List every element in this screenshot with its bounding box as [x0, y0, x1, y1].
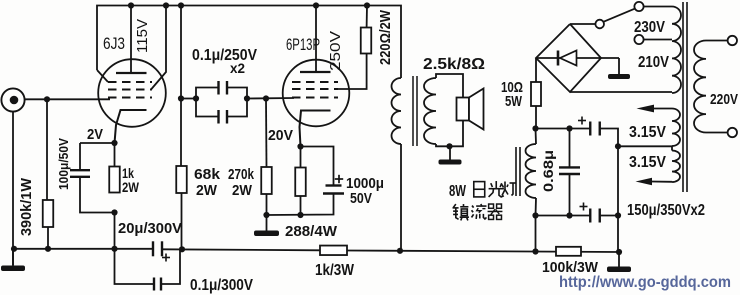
- switch contact 210V: [634, 35, 643, 44]
- svg-text:20μ/300V: 20μ/300V: [118, 220, 182, 237]
- svg-text:2V: 2V: [87, 126, 103, 143]
- wire C1000u bottom lead: [267, 194, 334, 216]
- svg-text:150μ/350Vx2: 150μ/350Vx2: [627, 202, 705, 219]
- svg-text:288/4W: 288/4W: [285, 223, 338, 240]
- node input/390k junction: [44, 96, 50, 102]
- resistor 68k/2W: [176, 166, 187, 193]
- node 288/ground junction: [263, 212, 269, 218]
- wire bridge AC bottom to HV winding: [570, 91, 672, 93]
- svg-text:3.15V: 3.15V: [629, 124, 667, 141]
- node cap pair left: [193, 95, 199, 101]
- svg-text:220V: 220V: [710, 91, 738, 108]
- resistor 390k/1W: [43, 200, 54, 227]
- tube 6P13P anode lead: [315, 6, 317, 73]
- node bus/cathode net: [111, 246, 117, 252]
- wire bridge AC top: [570, 23, 595, 25]
- wire filament 2 bottom with arrow: [651, 181, 672, 183]
- svg-text:250V: 250V: [327, 31, 344, 71]
- wire cathode node to C 100u: [80, 142, 115, 144]
- polarity + of upper 150u: [578, 120, 586, 122]
- wire mains bottom lead: [706, 132, 728, 134]
- bridge diode symbol: [536, 57, 601, 59]
- terminal mains bottom: [728, 128, 737, 137]
- tube 6J3 anode plate: [116, 72, 147, 74]
- capacitor 150u/350V lower: [589, 209, 591, 223]
- node filament return: [615, 143, 621, 149]
- svg-text:0.68μ: 0.68μ: [540, 150, 556, 192]
- wire filament 2 joins return: [671, 146, 673, 150]
- wire 390k top lead: [46, 99, 48, 200]
- terminal mains top: [728, 36, 737, 45]
- transformer T1 core: [412, 76, 414, 146]
- svg-text:68k: 68k: [194, 166, 221, 183]
- node 6P13P grid / 270k: [263, 95, 269, 101]
- tube 6P13P grid g2: [292, 88, 338, 90]
- wire choke top lead: [535, 129, 538, 145]
- wire cap pair to 6P13P grid: [247, 97, 294, 100]
- node cathode bottom junction: [111, 209, 117, 215]
- switch contact pole: [595, 20, 604, 29]
- wire 6J3 g2 strap to bus: [151, 6, 166, 90]
- svg-text:http://www.go-gddq.com: http://www.go-gddq.com: [559, 274, 731, 291]
- wire PSU to bus: [535, 216, 537, 252]
- wire filter bottom right: [600, 215, 618, 217]
- node bus/68k/decoupling: [179, 246, 185, 252]
- wire 270k top lead: [265, 99, 268, 168]
- svg-text:2.5k/8Ω: 2.5k/8Ω: [423, 56, 485, 73]
- wire bus mid: [162, 249, 320, 250]
- wire bridge + output to 10R: [535, 58, 537, 82]
- node screen resistor on bus: [364, 2, 370, 8]
- wire 270k bottom lead: [266, 194, 268, 215]
- capacitor 0.1u/300V bypass: [153, 278, 155, 291]
- transformer T2 HV winding: [672, 7, 681, 94]
- resistor 270k/2W: [261, 167, 272, 194]
- input jack J1: [1, 88, 24, 111]
- svg-text:1k/3W: 1k/3W: [315, 262, 354, 279]
- wire C100u top lead: [79, 143, 81, 170]
- svg-text:230V: 230V: [634, 19, 666, 36]
- node speaker return: [446, 143, 452, 149]
- transformer T2 primary 220V winding: [694, 41, 706, 133]
- capacitor 150u/350V upper: [589, 122, 591, 136]
- ground at 6P13P cathode return: [266, 215, 268, 231]
- capacitor C 0.1u/250V upper: [196, 88, 219, 99]
- wire filament return: [618, 145, 672, 147]
- wire cathode to C1000u: [301, 147, 334, 186]
- node 2V cathode junction: [111, 140, 117, 146]
- tube 6J3 grid g3: [108, 81, 152, 83]
- svg-text:8W: 8W: [449, 183, 466, 200]
- speaker LS: [457, 98, 470, 121]
- node 0.68u bottom: [566, 212, 572, 218]
- transformer T2 filament winding 1: [672, 109, 680, 147]
- node coupling left: [178, 95, 184, 101]
- svg-text:50V: 50V: [350, 190, 372, 207]
- wire C100u bottom lead: [80, 177, 115, 213]
- svg-text:0.1μ/300V: 0.1μ/300V: [190, 277, 254, 294]
- polarity + of 1000u: [335, 178, 343, 180]
- tube 6P13P grid g3: [292, 81, 338, 83]
- svg-text:100μ/50V: 100μ/50V: [56, 138, 71, 190]
- capacitor 100u/50V: [70, 169, 90, 171]
- svg-text:2W: 2W: [196, 182, 218, 199]
- resistor 288/4W cathode: [295, 168, 306, 197]
- wire cathode to 288 resistor: [300, 147, 302, 168]
- polarity + of lower 150u: [580, 206, 588, 208]
- svg-text:2W: 2W: [232, 182, 253, 199]
- wire choke bottom lead: [535, 198, 538, 216]
- ground at bleeder: [618, 252, 620, 267]
- wire coupling node to cap pair: [181, 98, 196, 100]
- wire OPT secondary top to speaker: [436, 74, 463, 98]
- wire filter top line: [536, 128, 591, 130]
- svg-text:3.15V: 3.15V: [629, 154, 667, 171]
- capacitor 1000u/50V: [326, 184, 342, 186]
- svg-text:0.1μ/250V: 0.1μ/250V: [192, 47, 258, 64]
- tube V2 6P13P envelope: [283, 60, 350, 127]
- tube V1 6J3 envelope: [98, 59, 166, 127]
- svg-text:6P13P: 6P13P: [286, 35, 320, 54]
- node filter input top: [532, 125, 538, 131]
- node 288 bottom junction: [297, 212, 303, 218]
- node coupling feed on bus: [178, 2, 184, 8]
- wire 288 bottom lead: [300, 196, 302, 215]
- wire bus to coupling node: [180, 6, 182, 99]
- svg-text:390k/1W: 390k/1W: [19, 178, 35, 236]
- wire filter bottom line: [536, 215, 591, 217]
- svg-text:210V: 210V: [638, 54, 670, 71]
- svg-text:5W: 5W: [505, 93, 523, 110]
- wire mains top lead: [706, 40, 728, 42]
- ground at HV winding: [618, 58, 620, 74]
- wire filament 1 top with arrow: [653, 108, 672, 110]
- node 6P13P anode on bus: [313, 2, 319, 8]
- wire 68k bottom lead: [181, 193, 183, 250]
- svg-text:115V: 115V: [134, 19, 151, 53]
- wire screen resistor to bus: [366, 6, 368, 28]
- svg-text:270k: 270k: [228, 166, 255, 183]
- node bus/OPT primary: [397, 248, 403, 254]
- wire jack sleeve down to ground bus: [12, 112, 14, 265]
- tube 6P13P anode plate: [300, 71, 331, 73]
- wire bus right of 1k/3W: [347, 251, 619, 253]
- node 6J3 anode on bus: [128, 2, 134, 8]
- bridge rectifier D1 body: [536, 24, 601, 92]
- tube 6J3 anode lead: [130, 6, 132, 74]
- resistor 1k/2W cathode: [109, 167, 120, 193]
- node bus/bleeder ground: [616, 249, 622, 255]
- node filter bottom right: [615, 212, 621, 218]
- tube 6J3 grid g2: [108, 89, 152, 91]
- wire B+ top bus: [97, 6, 401, 79]
- transformer T1 primary winding: [392, 78, 402, 144]
- switch arm: [603, 9, 635, 22]
- node 6P13P cathode junction: [297, 143, 303, 149]
- wire 68k top lead: [180, 99, 182, 167]
- svg-text:6J3: 6J3: [103, 34, 125, 53]
- switch contact 230V: [634, 2, 643, 11]
- wire cathode net to bus: [114, 213, 116, 250]
- wire filter top right corner: [600, 129, 618, 253]
- wire OPT primary bottom to bus: [400, 144, 402, 251]
- wire 390k bottom lead: [47, 227, 49, 249]
- transformer T1 secondary winding: [424, 78, 436, 144]
- ground at input: [12, 249, 14, 266]
- choke ballast winding (8W fluorescent ballast): [526, 144, 537, 198]
- wire bridge AC ground: [601, 57, 619, 59]
- transformer T2 core: [682, 2, 684, 192]
- wire 230V tap: [644, 6, 672, 8]
- label ballast line2 (镇流器): [453, 204, 456, 208]
- wire 0.1u bypass branch: [115, 249, 155, 284]
- tube 6P13P grid g1: [292, 97, 338, 99]
- polarity + of 20u: [162, 257, 170, 259]
- wire 6J3 g3 strap to bus left: [97, 70, 108, 82]
- capacitor 20u/300V on bus: [152, 241, 154, 256]
- transformer T2 filament winding 2: [672, 151, 680, 183]
- capacitor 0.68u across choke: [569, 129, 571, 168]
- choke ballast core: [515, 147, 517, 196]
- wire 210V tap: [644, 39, 672, 41]
- node g2 strap on bus: [163, 2, 169, 8]
- svg-text:20V: 20V: [268, 127, 293, 144]
- resistor 10R/5W: [531, 82, 541, 106]
- node bus/PSU feed: [532, 248, 538, 254]
- tube 6J3 cathode: [115, 110, 147, 143]
- wire OPT secondary bottom to speaker: [436, 121, 463, 147]
- svg-text:220Ω/2W: 220Ω/2W: [377, 9, 394, 65]
- tube 6P13P cathode: [300, 111, 331, 147]
- wire ground/B+ bottom bus left: [13, 248, 153, 250]
- capacitor C 0.1u/250V lower: [196, 99, 219, 117]
- resistor 100k/3W bleeder: [556, 247, 581, 256]
- wire 10R to filter: [535, 106, 537, 129]
- resistor 1k/3W B+ dropper: [320, 246, 347, 256]
- node bus/390k: [45, 246, 51, 252]
- node choke bottom: [532, 212, 538, 218]
- wire 1k top lead: [114, 143, 116, 167]
- svg-text:x2: x2: [230, 60, 245, 76]
- tube 6J3 grid g1: [108, 97, 152, 99]
- wire 6P13P g2 to screen resistor: [338, 54, 367, 90]
- ground at speaker return: [449, 146, 451, 159]
- wire 0.1u bypass right: [161, 249, 180, 284]
- node 0.68u top: [566, 125, 572, 131]
- svg-text:2W: 2W: [122, 179, 140, 195]
- node bus/jack: [11, 246, 17, 252]
- wire jack to 6J3 grid: [25, 98, 110, 100]
- node cap pair right: [244, 95, 250, 101]
- resistor 220R/2W screen: [361, 28, 372, 54]
